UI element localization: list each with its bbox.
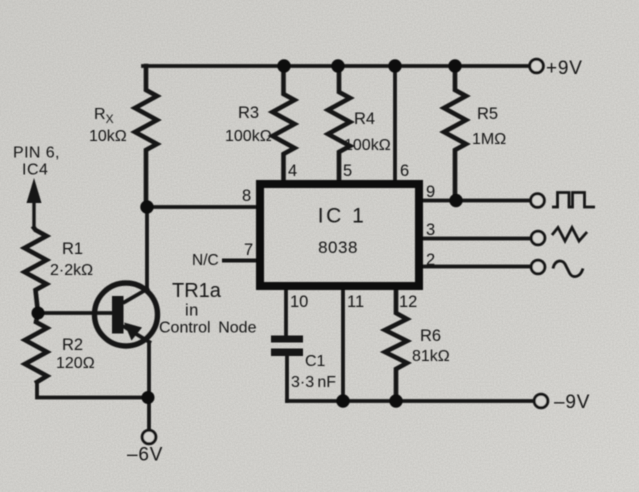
svg-text:N/C: N/C: [192, 252, 219, 269]
svg-text:6: 6: [400, 162, 409, 180]
svg-text:120Ω: 120Ω: [56, 355, 95, 372]
svg-text:C1: C1: [305, 353, 326, 370]
svg-text:2·2kΩ: 2·2kΩ: [50, 262, 93, 279]
svg-text:100kΩ: 100kΩ: [225, 128, 272, 145]
svg-text:+9V: +9V: [546, 58, 583, 79]
svg-text:R2: R2: [62, 336, 83, 354]
svg-text:81kΩ: 81kΩ: [412, 348, 450, 365]
svg-text:100kΩ: 100kΩ: [344, 137, 391, 154]
svg-text:8038: 8038: [318, 238, 358, 257]
svg-text:4: 4: [288, 162, 297, 180]
svg-text:R5: R5: [477, 105, 498, 123]
svg-text:2: 2: [426, 251, 435, 269]
svg-text:3·3 nF: 3·3 nF: [291, 374, 336, 391]
svg-text:R6: R6: [420, 327, 441, 345]
svg-text:PIN 6,: PIN 6,: [13, 145, 60, 162]
svg-text:–9V: –9V: [554, 392, 590, 413]
svg-text:–6V: –6V: [127, 445, 163, 466]
svg-text:Control Node: Control Node: [159, 320, 257, 337]
svg-text:9: 9: [426, 183, 435, 201]
svg-text:IC4: IC4: [22, 162, 48, 179]
svg-text:10: 10: [290, 293, 308, 311]
svg-text:8: 8: [242, 187, 251, 205]
svg-text:TR1a: TR1a: [172, 280, 222, 302]
svg-text:in: in: [185, 302, 199, 320]
svg-text:3: 3: [426, 221, 435, 239]
svg-text:1MΩ: 1MΩ: [472, 131, 506, 148]
svg-text:5: 5: [343, 162, 352, 180]
svg-text:R3: R3: [238, 104, 259, 122]
svg-text:7: 7: [244, 241, 253, 259]
svg-text:R1: R1: [62, 240, 83, 258]
svg-text:R4: R4: [354, 110, 375, 128]
svg-text:10kΩ: 10kΩ: [89, 128, 127, 145]
svg-text:11: 11: [347, 293, 364, 311]
svg-text:IC 1: IC 1: [318, 205, 367, 228]
svg-text:12: 12: [399, 293, 417, 311]
